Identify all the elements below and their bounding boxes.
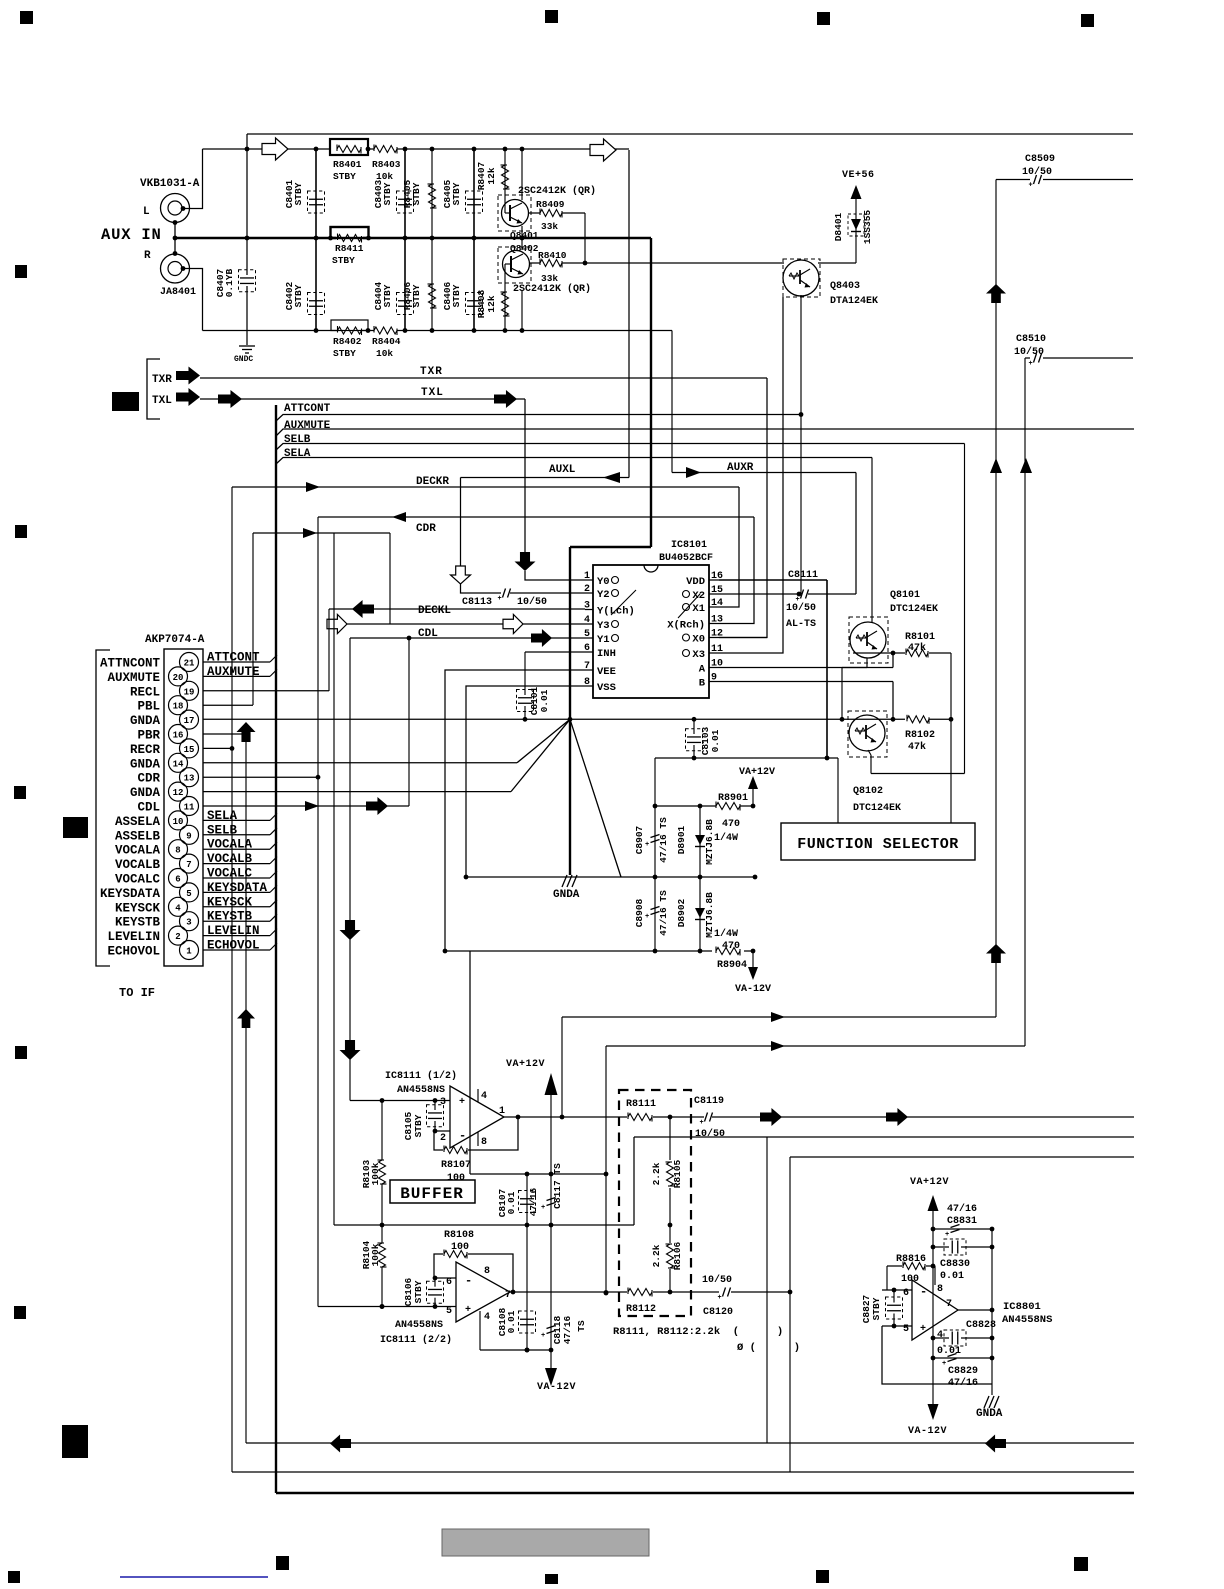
svg-text:DECKR: DECKR: [416, 476, 449, 488]
svg-text:16: 16: [173, 731, 184, 741]
svg-text:AL-TS: AL-TS: [786, 619, 816, 630]
svg-text:12: 12: [173, 788, 184, 798]
svg-text:VSS: VSS: [597, 682, 616, 694]
svg-text:D8902: D8902: [676, 898, 687, 927]
svg-text:ASSELA: ASSELA: [115, 815, 161, 829]
svg-text:GNDA: GNDA: [130, 714, 161, 728]
svg-text:7: 7: [186, 860, 191, 870]
svg-text:SELB: SELB: [207, 823, 238, 837]
svg-text:MZTJ6.8B: MZTJ6.8B: [704, 819, 715, 865]
svg-text:VA-12V: VA-12V: [908, 1426, 947, 1437]
svg-text:19: 19: [184, 687, 195, 697]
svg-text:6: 6: [903, 1288, 909, 1299]
svg-text:47/16: 47/16: [947, 1203, 977, 1215]
svg-text:ECHOVOL: ECHOVOL: [107, 945, 160, 959]
svg-text:47k: 47k: [908, 741, 926, 753]
svg-text:+: +: [920, 1324, 926, 1335]
svg-text:7: 7: [946, 1299, 952, 1310]
svg-text:DTC124EK: DTC124EK: [890, 604, 938, 615]
svg-text:2: 2: [584, 584, 590, 595]
svg-text:R8111: R8111: [626, 1099, 656, 1110]
svg-text:Q8403: Q8403: [830, 281, 860, 292]
svg-text:R: R: [144, 250, 151, 262]
svg-text:47k: 47k: [908, 642, 926, 654]
svg-text:VOCALC: VOCALC: [115, 873, 161, 887]
svg-text:10k: 10k: [376, 348, 393, 359]
svg-text:8: 8: [481, 1137, 487, 1148]
svg-text:1: 1: [584, 571, 590, 582]
svg-text:FUNCTION SELECTOR: FUNCTION SELECTOR: [797, 836, 959, 853]
svg-text:470: 470: [722, 941, 740, 952]
svg-text:KEYSCK: KEYSCK: [115, 901, 161, 915]
svg-text:C8831: C8831: [947, 1216, 977, 1227]
svg-text:2SC2412K (QR): 2SC2412K (QR): [513, 283, 591, 295]
svg-text:47/16: 47/16: [528, 1187, 539, 1216]
svg-text:1: 1: [499, 1106, 505, 1117]
svg-text:15: 15: [184, 745, 195, 755]
svg-text:0.01: 0.01: [506, 1310, 517, 1333]
svg-text:R8404: R8404: [372, 336, 401, 347]
svg-text:R8403: R8403: [372, 159, 401, 170]
svg-text:11: 11: [184, 803, 195, 813]
svg-text:Y2: Y2: [597, 589, 610, 601]
svg-text:R8410: R8410: [538, 250, 567, 261]
svg-text:C8119: C8119: [694, 1096, 724, 1107]
svg-text:9: 9: [186, 831, 191, 841]
svg-text:47/16: 47/16: [948, 1377, 978, 1389]
svg-text:LEVELIN: LEVELIN: [207, 924, 260, 938]
svg-text:VEE: VEE: [597, 666, 616, 678]
svg-text:LEVELIN: LEVELIN: [107, 930, 160, 944]
svg-text:BUFFER: BUFFER: [400, 1185, 464, 1203]
svg-text:+: +: [645, 913, 649, 921]
svg-text:STBY: STBY: [411, 182, 422, 205]
svg-text:TXR: TXR: [152, 374, 172, 386]
svg-text:13: 13: [184, 774, 195, 784]
svg-text:AUXL: AUXL: [549, 464, 576, 476]
svg-text:R8106: R8106: [672, 1241, 683, 1270]
svg-text:10/50: 10/50: [1022, 166, 1052, 178]
svg-text:KEYSDATA: KEYSDATA: [207, 881, 268, 895]
svg-text:1: 1: [186, 947, 192, 957]
svg-text:KEYSTB: KEYSTB: [115, 916, 161, 930]
svg-text:GNDA: GNDA: [130, 786, 161, 800]
svg-text:CDL: CDL: [137, 801, 160, 815]
svg-text:R8402: R8402: [333, 336, 362, 347]
svg-text:IC8101: IC8101: [671, 540, 707, 551]
svg-text:Y0: Y0: [597, 576, 610, 588]
svg-text:+: +: [1029, 182, 1033, 190]
svg-text:STBY: STBY: [382, 284, 393, 307]
svg-text:C8509: C8509: [1025, 154, 1055, 165]
svg-text:10/50: 10/50: [786, 602, 816, 614]
svg-text:R8102: R8102: [905, 730, 935, 741]
svg-text:GNDA: GNDA: [130, 757, 161, 771]
svg-text:1/4W: 1/4W: [714, 928, 738, 940]
svg-text:AN4558NS: AN4558NS: [1002, 1314, 1052, 1326]
svg-text:100: 100: [447, 1173, 465, 1184]
svg-text:2.2k: 2.2k: [651, 1162, 662, 1185]
svg-text:X(Rch): X(Rch): [667, 620, 705, 632]
svg-text:TO IF: TO IF: [119, 986, 155, 1000]
svg-text:SELB: SELB: [284, 434, 311, 446]
svg-text:C8111: C8111: [788, 570, 818, 581]
svg-text:VOCALA: VOCALA: [115, 844, 161, 858]
svg-text:ATTCONT: ATTCONT: [207, 651, 260, 665]
svg-text:2: 2: [175, 932, 180, 942]
svg-text:14: 14: [173, 759, 184, 769]
svg-text:IC8801: IC8801: [1003, 1301, 1041, 1313]
svg-text:2: 2: [440, 1133, 446, 1144]
svg-text:-: -: [459, 1129, 466, 1143]
svg-text:C8120: C8120: [703, 1307, 733, 1318]
svg-text:AUXR: AUXR: [727, 462, 754, 474]
svg-text:10/50: 10/50: [517, 596, 547, 608]
svg-text:VOCALB: VOCALB: [115, 858, 161, 872]
svg-text:Y(Lch): Y(Lch): [597, 606, 635, 618]
svg-text:0.01: 0.01: [710, 729, 721, 752]
svg-text:ASSELB: ASSELB: [115, 829, 161, 843]
svg-text:PBL: PBL: [137, 700, 160, 714]
svg-text:GNDA: GNDA: [976, 1408, 1003, 1420]
svg-text:3: 3: [440, 1097, 446, 1108]
svg-text:+: +: [541, 1332, 545, 1340]
svg-text:R8904: R8904: [717, 960, 747, 971]
svg-text:Q8401: Q8401: [510, 230, 539, 241]
svg-text:+: +: [645, 841, 649, 849]
svg-text:47/16 TS: 47/16 TS: [658, 817, 669, 863]
svg-text:4: 4: [584, 615, 590, 626]
svg-text:R8111, R8112:2.2k ( ): R8111, R8112:2.2k ( ): [613, 1326, 783, 1338]
svg-text:+: +: [465, 1305, 471, 1316]
svg-text:R8816: R8816: [896, 1254, 926, 1265]
svg-text:R8108: R8108: [444, 1230, 474, 1241]
svg-text:IC8111 (2/2): IC8111 (2/2): [380, 1334, 452, 1346]
svg-text:2.2k: 2.2k: [651, 1244, 662, 1267]
svg-text:AUXMUTE: AUXMUTE: [107, 671, 160, 685]
svg-text:GNDC: GNDC: [234, 355, 253, 364]
svg-text:Q8102: Q8102: [853, 786, 883, 797]
svg-text:12k: 12k: [486, 295, 497, 312]
svg-text:VDD: VDD: [686, 576, 705, 588]
svg-text:ATTCONT: ATTCONT: [284, 403, 331, 415]
svg-text:PBR: PBR: [137, 729, 160, 743]
svg-text:8: 8: [937, 1284, 943, 1295]
svg-text:D8901: D8901: [676, 825, 687, 854]
svg-text:TS: TS: [576, 1320, 587, 1332]
svg-text:C8907: C8907: [634, 825, 645, 854]
svg-text:47/16 TS: 47/16 TS: [658, 890, 669, 936]
svg-text:AKP7074-A: AKP7074-A: [145, 634, 205, 646]
svg-text:X3: X3: [692, 649, 705, 661]
svg-text:B: B: [699, 678, 706, 690]
svg-text:STBY: STBY: [332, 255, 355, 266]
svg-text:STBY: STBY: [871, 1297, 882, 1320]
svg-text:AN4558NS: AN4558NS: [395, 1320, 443, 1331]
svg-text:5: 5: [186, 889, 191, 899]
svg-text:VKB1031-A: VKB1031-A: [140, 178, 200, 190]
svg-text:C8117 TS: C8117 TS: [552, 1163, 563, 1209]
svg-text:33k: 33k: [541, 273, 558, 284]
svg-text:VA+12V: VA+12V: [910, 1177, 949, 1188]
svg-text:4: 4: [937, 1330, 943, 1341]
svg-text:8: 8: [175, 846, 180, 856]
svg-text:100k: 100k: [370, 1243, 381, 1266]
svg-text:ATTNCONT: ATTNCONT: [100, 657, 161, 671]
svg-text:TXL: TXL: [421, 387, 444, 399]
svg-text:R8105: R8105: [672, 1159, 683, 1188]
svg-text:+: +: [942, 1360, 946, 1368]
svg-text:+: +: [1029, 360, 1033, 368]
svg-text:10/50: 10/50: [695, 1128, 725, 1140]
svg-text:STBY: STBY: [293, 284, 304, 307]
svg-text:AUXMUTE: AUXMUTE: [207, 665, 260, 679]
svg-text:5: 5: [903, 1324, 909, 1335]
svg-text:1SS355: 1SS355: [862, 210, 873, 245]
svg-text:MZTJ6.8B: MZTJ6.8B: [704, 892, 715, 938]
svg-text:10/50: 10/50: [1014, 346, 1044, 358]
svg-text:DECKL: DECKL: [418, 605, 451, 617]
svg-text:DTC124EK: DTC124EK: [853, 803, 901, 814]
svg-text:470: 470: [722, 819, 740, 830]
svg-text:STBY: STBY: [293, 182, 304, 205]
svg-text:3: 3: [186, 918, 191, 928]
svg-text:5: 5: [584, 629, 590, 640]
svg-text:INH: INH: [597, 648, 616, 660]
svg-text:Q8402: Q8402: [510, 243, 539, 254]
svg-text:+: +: [498, 595, 502, 603]
svg-text:4: 4: [175, 903, 181, 913]
svg-text:STBY: STBY: [382, 182, 393, 205]
svg-text:VA+12V: VA+12V: [739, 767, 775, 778]
svg-text:RECL: RECL: [130, 685, 160, 699]
svg-text:C8830: C8830: [940, 1259, 970, 1270]
svg-text:STBY: STBY: [413, 1114, 424, 1137]
svg-text:0.1YB: 0.1YB: [224, 268, 235, 297]
svg-text:RECR: RECR: [130, 743, 161, 757]
svg-text:X0: X0: [692, 634, 705, 646]
svg-text:100: 100: [451, 1242, 469, 1253]
svg-text:Y1: Y1: [597, 634, 610, 646]
svg-text:20: 20: [173, 673, 184, 683]
svg-text:IC8111 (1/2): IC8111 (1/2): [385, 1070, 457, 1082]
svg-text:1/4W: 1/4W: [714, 832, 738, 844]
svg-text:C8908: C8908: [634, 898, 645, 927]
svg-text:STBY: STBY: [333, 348, 356, 359]
svg-text:C8829: C8829: [948, 1366, 978, 1377]
svg-text:5: 5: [446, 1306, 452, 1317]
svg-text:0.01: 0.01: [940, 1271, 964, 1282]
svg-text:0.01: 0.01: [539, 689, 550, 712]
svg-text:17: 17: [184, 716, 195, 726]
svg-text:33k: 33k: [541, 221, 558, 232]
svg-text:C8828: C8828: [966, 1320, 996, 1331]
svg-text:6: 6: [175, 875, 180, 885]
svg-text:CDR: CDR: [137, 772, 160, 786]
svg-text:R8901: R8901: [718, 793, 748, 804]
svg-text:TXR: TXR: [420, 366, 443, 378]
svg-text:12k: 12k: [486, 167, 497, 184]
svg-text:ECHOVOL: ECHOVOL: [207, 939, 260, 953]
svg-text:VE+56: VE+56: [842, 170, 875, 181]
svg-text:VA+12V: VA+12V: [506, 1059, 545, 1070]
svg-text:JA8401: JA8401: [160, 287, 196, 298]
svg-text:6: 6: [446, 1277, 452, 1288]
svg-text:KEYSDATA: KEYSDATA: [100, 887, 161, 901]
svg-text:AUXMUTE: AUXMUTE: [284, 420, 331, 432]
svg-text:D8401: D8401: [833, 212, 844, 241]
svg-text:VA-12V: VA-12V: [735, 984, 771, 995]
svg-text:SELA: SELA: [207, 809, 238, 823]
svg-text:C8113: C8113: [462, 597, 492, 608]
svg-text:GNDA: GNDA: [553, 889, 580, 901]
svg-text:8: 8: [484, 1266, 490, 1277]
svg-text:Y3: Y3: [597, 620, 610, 632]
svg-text:R8107: R8107: [441, 1160, 471, 1171]
svg-text:4: 4: [484, 1312, 490, 1323]
svg-text:VA-12V: VA-12V: [537, 1382, 576, 1393]
svg-text:R8101: R8101: [905, 632, 935, 643]
svg-text:-: -: [920, 1285, 927, 1299]
svg-text:TXL: TXL: [152, 395, 172, 407]
svg-text:STBY: STBY: [411, 284, 422, 307]
svg-text:CDL: CDL: [418, 628, 438, 640]
svg-text:-: -: [465, 1274, 472, 1288]
svg-text:AUX IN: AUX IN: [101, 226, 162, 244]
svg-text:X1: X1: [692, 603, 705, 615]
svg-text:L: L: [143, 206, 150, 218]
svg-text:100k: 100k: [370, 1162, 381, 1185]
svg-text:R8112: R8112: [626, 1304, 656, 1315]
svg-text:STBY: STBY: [333, 171, 356, 182]
svg-text:+: +: [541, 1204, 545, 1212]
svg-text:+: +: [459, 1097, 465, 1108]
svg-text:Q8101: Q8101: [890, 590, 920, 601]
svg-text:STBY: STBY: [451, 284, 462, 307]
svg-text:21: 21: [184, 659, 195, 669]
svg-text:18: 18: [173, 702, 184, 712]
svg-text:CDR: CDR: [416, 523, 436, 535]
svg-text:+: +: [945, 1231, 949, 1239]
svg-text:STBY: STBY: [413, 1280, 424, 1303]
svg-text:STBY: STBY: [451, 182, 462, 205]
svg-text:R8409: R8409: [536, 199, 565, 210]
svg-text:DTA124EK: DTA124EK: [830, 296, 878, 307]
svg-text:+: +: [700, 1119, 704, 1127]
svg-text:10/50: 10/50: [702, 1274, 732, 1286]
svg-text:R8401: R8401: [333, 159, 362, 170]
svg-text:0.01: 0.01: [506, 1191, 517, 1214]
svg-text:A: A: [699, 664, 706, 676]
svg-text:9: 9: [711, 673, 717, 684]
svg-text:47/16: 47/16: [562, 1315, 573, 1344]
svg-text:3: 3: [584, 601, 590, 612]
svg-text:10: 10: [173, 817, 184, 827]
svg-text:C8510: C8510: [1016, 334, 1046, 345]
svg-text:+: +: [718, 1294, 722, 1302]
svg-text:BU4052BCF: BU4052BCF: [659, 553, 713, 564]
svg-text:4: 4: [481, 1091, 487, 1102]
svg-text:2SC2412K (QR): 2SC2412K (QR): [518, 185, 596, 197]
svg-text:SELA: SELA: [284, 448, 311, 460]
svg-text:AN4558NS: AN4558NS: [397, 1085, 445, 1096]
svg-text:R8411: R8411: [335, 243, 364, 254]
